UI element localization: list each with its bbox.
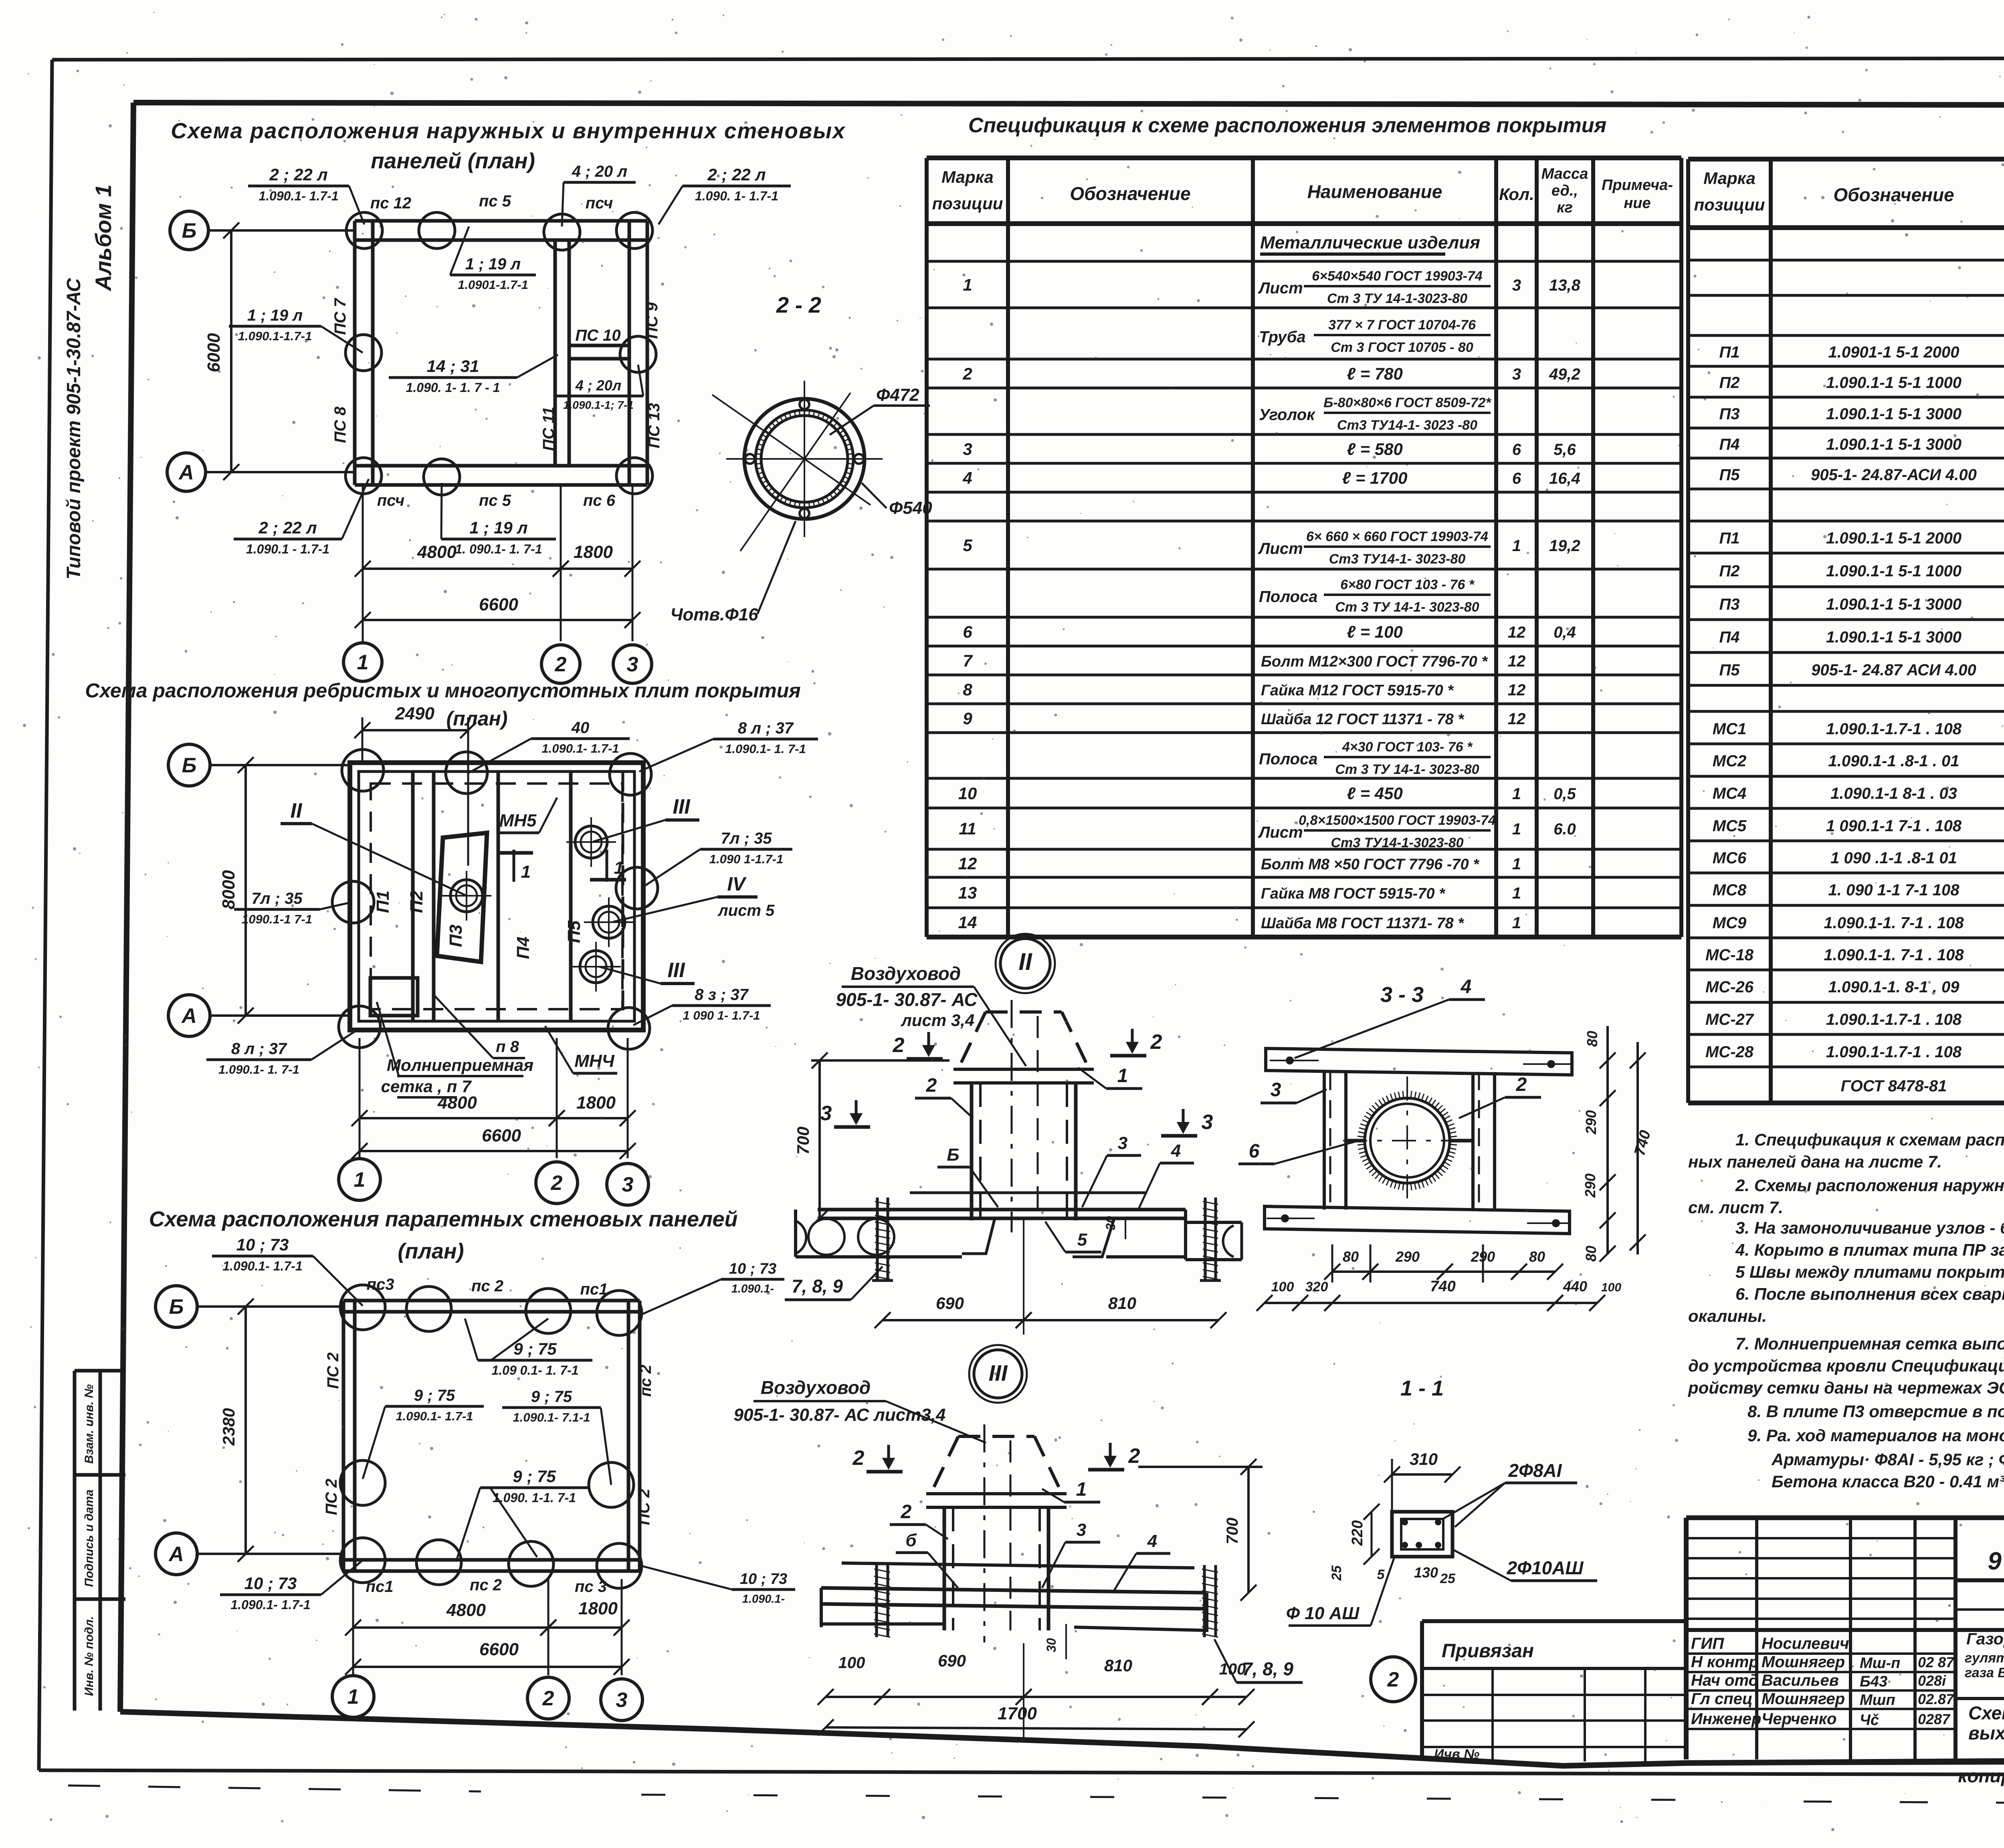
svg-text:905-1- 24.87 АСИ 4.00: 905-1- 24.87 АСИ 4.00: [1811, 661, 1976, 679]
svg-text:II: II: [1018, 948, 1032, 975]
svg-text:2: 2: [893, 1034, 905, 1057]
svg-text:690: 690: [938, 1651, 966, 1670]
svg-text:МС2: МС2: [1713, 752, 1746, 770]
svg-text:панелей (план): панелей (план): [371, 148, 535, 173]
svg-text:2: 2: [853, 1446, 865, 1470]
svg-text:1: 1: [1512, 914, 1521, 932]
svg-text:Примеча-: Примеча-: [1602, 177, 1673, 194]
svg-text:6: 6: [1512, 441, 1521, 458]
svg-text:Инв. № подл.: Инв. № подл.: [83, 1616, 96, 1696]
svg-text:1.090.1-1; 7-1: 1.090.1-1; 7-1: [563, 399, 634, 411]
svg-text:Бетона класса В20 - 0.41 м: Бетона класса В20 - 0.41 м³ .: [1772, 1472, 2004, 1491]
svg-text:4×30 ГОСТ 103- 76 *: 4×30 ГОСТ 103- 76 *: [1342, 739, 1473, 755]
svg-text:8. В плите П3 отверстие: 8. В плите П3 отверстие в полке 810 × 35…: [1747, 1402, 2004, 1421]
svg-text:2 ; 22 л: 2 ; 22 л: [269, 165, 327, 184]
svg-text:0287: 0287: [1918, 1711, 1951, 1727]
svg-text:2Ф10АШ: 2Ф10АШ: [1507, 1557, 1584, 1578]
svg-text:Схема расположения парапетных: Схема расположения парапетных стеновых п…: [149, 1207, 738, 1231]
svg-text:ние: ние: [1624, 195, 1650, 212]
svg-text:1 ; 19 л: 1 ; 19 л: [469, 518, 527, 537]
svg-text:40: 40: [571, 719, 590, 737]
svg-text:100: 100: [1601, 1281, 1621, 1294]
svg-text:700: 700: [794, 1127, 812, 1155]
svg-text:1.090.1-1 .8-1 . 01: 1.090.1-1 .8-1 . 01: [1828, 752, 1960, 770]
svg-text:Б: Б: [169, 1295, 184, 1319]
svg-text:Мошнягер: Мошнягер: [1762, 1690, 1845, 1708]
svg-text:ПС 2: ПС 2: [635, 1488, 653, 1525]
svg-text:Газорегуляторный пункт с ре-: Газорегуляторный пункт с ре-: [1966, 1630, 2004, 1648]
svg-text:1.090.1-1. 8-1 . 09: 1.090.1-1. 8-1 . 09: [1828, 978, 1960, 996]
svg-text:ПС 10: ПС 10: [575, 327, 620, 344]
svg-text:ℓ = 100: ℓ = 100: [1347, 622, 1403, 641]
svg-text:Мш-п: Мш-п: [1860, 1655, 1900, 1672]
svg-text:4800: 4800: [446, 1600, 486, 1620]
svg-text:1: 1: [1512, 885, 1521, 902]
svg-text:вых панелей и плит покрыти: вых панелей и плит покрытия.: [1968, 1723, 2004, 1743]
svg-text:Ф540: Ф540: [889, 498, 932, 518]
svg-text:П3: П3: [1719, 405, 1739, 423]
svg-text:9: 9: [963, 709, 972, 728]
svg-text:1.090.1-1 5-1 3000: 1.090.1-1 5-1 3000: [1826, 628, 1962, 646]
svg-text:МН5: МН5: [499, 811, 537, 830]
svg-text:Шайба 12 ГОСТ 11371 - 78 *: Шайба 12 ГОСТ 11371 - 78 *: [1261, 711, 1465, 728]
svg-text:2: 2: [926, 1075, 937, 1096]
svg-text:2 - 2: 2 - 2: [776, 292, 821, 317]
svg-text:6: 6: [963, 622, 972, 641]
svg-text:лист 3,4: лист 3,4: [901, 1011, 975, 1030]
svg-text:905-1- 30.87- АС лист3,4: 905-1- 30.87- АС лист3,4: [734, 1405, 946, 1425]
svg-text:Б: Б: [947, 1145, 959, 1165]
svg-text:см. лист 7.: см. лист 7.: [1688, 1198, 1783, 1217]
svg-text:6×80 ГОСТ 103 - 76 *: 6×80 ГОСТ 103 - 76 *: [1340, 577, 1475, 592]
svg-text:2 ; 22 л: 2 ; 22 л: [258, 518, 317, 537]
svg-text:5,6: 5,6: [1554, 441, 1576, 458]
svg-text:0,4: 0,4: [1554, 624, 1576, 641]
svg-text:4: 4: [1147, 1531, 1157, 1551]
svg-text:Ф472: Ф472: [876, 385, 919, 405]
svg-text:1.090.1-1 5-1 3000: 1.090.1-1 5-1 3000: [1826, 405, 1962, 423]
svg-text:2: 2: [1128, 1444, 1140, 1468]
svg-text:1: 1: [614, 858, 624, 878]
svg-text:1.090.1- 1.7-1: 1.090.1- 1.7-1: [222, 1259, 302, 1273]
svg-text:6600: 6600: [479, 1640, 519, 1659]
svg-text:1.090.1-1.7-1 . 108: 1.090.1-1.7-1 . 108: [1826, 1043, 1962, 1061]
svg-text:б: б: [905, 1531, 917, 1550]
svg-text:3: 3: [616, 1688, 628, 1712]
svg-text:1. Спецификация к схемам ра: 1. Спецификация к схемам расположения на…: [1735, 1130, 2004, 1149]
svg-text:1.090 1-1.7-1: 1.090 1-1.7-1: [709, 852, 783, 866]
svg-text:1.090.1- 1.7-1: 1.090.1- 1.7-1: [541, 741, 619, 755]
svg-text:П2: П2: [407, 890, 426, 913]
svg-text:МС-26: МС-26: [1705, 978, 1754, 996]
svg-text:лист 5: лист 5: [717, 902, 775, 919]
svg-text:Гайка М12 ГОСТ 5915-70 *: Гайка М12 ГОСТ 5915-70 *: [1261, 682, 1454, 699]
svg-text:3: 3: [1512, 277, 1521, 294]
svg-text:позиции: позиции: [932, 194, 1003, 213]
svg-text:П5: П5: [1719, 466, 1740, 484]
svg-text:130: 130: [1414, 1564, 1438, 1581]
svg-text:П4: П4: [1719, 628, 1739, 646]
svg-text:ℓ = 450: ℓ = 450: [1347, 784, 1403, 803]
svg-text:пс 2: пс 2: [471, 1277, 503, 1295]
svg-text:ройству сетки даны на черт: ройству сетки даны на чертежах ЭС.: [1688, 1378, 2004, 1397]
svg-text:пс 3: пс 3: [575, 1578, 607, 1596]
svg-text:5: 5: [963, 536, 972, 555]
svg-text:Лист: Лист: [1258, 279, 1303, 297]
svg-text:12: 12: [1508, 710, 1526, 728]
svg-text:1 ; 19 л: 1 ; 19 л: [465, 255, 521, 273]
svg-text:2: 2: [1516, 1074, 1527, 1095]
svg-text:0,5: 0,5: [1554, 785, 1576, 803]
svg-text:1800: 1800: [576, 1093, 616, 1113]
svg-text:4. Корыто в плитах типа ПР: 4. Корыто в плитах типа ПР заполняется к…: [1735, 1240, 2004, 1259]
svg-text:Масса: Масса: [1541, 166, 1588, 182]
svg-text:1.090. 1-1. 7-1: 1.090. 1-1. 7-1: [493, 1491, 576, 1505]
svg-text:2380: 2380: [219, 1408, 238, 1446]
svg-text:МС1: МС1: [1713, 720, 1746, 738]
svg-text:1.090.1-1 8-1 . 03: 1.090.1-1 8-1 . 03: [1830, 785, 1957, 802]
svg-text:8: 8: [963, 680, 972, 699]
svg-text:80: 80: [1583, 1246, 1599, 1262]
svg-text:Уголок: Уголок: [1259, 406, 1315, 424]
svg-text:IV: IV: [727, 874, 747, 895]
svg-text:100: 100: [1219, 1660, 1246, 1678]
svg-text:ПС 9: ПС 9: [643, 302, 661, 339]
svg-text:Гл спец: Гл спец: [1691, 1690, 1753, 1708]
svg-text:12: 12: [1508, 681, 1526, 699]
svg-text:1.090.1- 1.7-1: 1.090.1- 1.7-1: [396, 1409, 473, 1423]
svg-text:1.090.1-1 5-1 2000: 1.090.1-1 5-1 2000: [1826, 529, 1962, 547]
svg-text:п 8: п 8: [496, 1038, 519, 1056]
svg-text:(план): (план): [398, 1239, 464, 1263]
svg-text:1.090.1-1 5-1 1000: 1.090.1-1 5-1 1000: [1826, 562, 1962, 580]
svg-text:МС-18: МС-18: [1705, 946, 1754, 964]
svg-text:Схемы расположения стено-: Схемы расположения стено-: [1968, 1703, 2004, 1723]
svg-text:Инженер: Инженер: [1691, 1710, 1761, 1728]
svg-text:П4: П4: [1719, 436, 1739, 453]
svg-text:810: 810: [1104, 1656, 1132, 1675]
svg-text:МНЧ: МНЧ: [574, 1051, 614, 1071]
svg-text:ПС 2: ПС 2: [323, 1478, 340, 1515]
svg-text:1.090.1- 7.1-1: 1.090.1- 7.1-1: [513, 1410, 590, 1424]
svg-text:II: II: [291, 799, 303, 822]
svg-text:810: 810: [1108, 1294, 1136, 1313]
svg-text:5: 5: [1077, 1230, 1087, 1250]
svg-text:4 ; 20л: 4 ; 20л: [575, 377, 621, 394]
svg-text:6. После выполнения всех св: 6. После выполнения всех сварных соедине…: [1735, 1285, 2004, 1303]
svg-text:905-1- 24.87-АСИ 4.00: 905-1- 24.87-АСИ 4.00: [1811, 466, 1977, 484]
svg-text:80: 80: [1529, 1248, 1545, 1265]
svg-text:6.0: 6.0: [1554, 820, 1576, 838]
svg-text:Чотв.Ф16: Чотв.Ф16: [670, 605, 758, 624]
svg-text:290: 290: [1582, 1173, 1598, 1198]
svg-text:700: 700: [1224, 1518, 1241, 1545]
svg-text:7л ; 35: 7л ; 35: [251, 890, 303, 907]
svg-text:1.090.1-1 5-1 1000: 1.090.1-1 5-1 1000: [1826, 374, 1962, 392]
svg-text:МС9: МС9: [1713, 914, 1747, 932]
svg-text:П5: П5: [1719, 661, 1740, 679]
svg-text:2 ; 22 л: 2 ; 22 л: [707, 165, 766, 184]
svg-text:2: 2: [962, 364, 972, 383]
svg-text:П1: П1: [373, 891, 393, 913]
svg-text:80: 80: [1584, 1031, 1600, 1047]
svg-text:905-1- 30.87- АС: 905-1- 30.87- АС: [836, 989, 978, 1010]
svg-text:Шайба М8 ГОСТ 11371- 78 *: Шайба М8 ГОСТ 11371- 78 *: [1261, 915, 1465, 932]
svg-text:псч: псч: [586, 194, 613, 212]
svg-text:440: 440: [1563, 1278, 1587, 1295]
svg-text:310: 310: [1410, 1450, 1438, 1468]
svg-text:ед.,: ед.,: [1551, 182, 1578, 199]
svg-text:16,4: 16,4: [1549, 470, 1580, 487]
svg-text:Обозначение: Обозначение: [1070, 183, 1190, 204]
svg-text:копировал :: копировал :: [1958, 1765, 2004, 1786]
svg-text:МС5: МС5: [1713, 817, 1747, 835]
svg-text:1: 1: [1512, 820, 1521, 838]
svg-text:гуляторами 0,6х+-е . с учетом: гуляторами 0,6х+-е . с учетом расхода: [1965, 1650, 2004, 1666]
svg-text:Альбом 1: Альбом 1: [91, 184, 116, 292]
svg-text:7: 7: [963, 651, 973, 670]
svg-text:100: 100: [1271, 1279, 1294, 1295]
svg-text:4800: 4800: [437, 1093, 477, 1113]
svg-text:МС4: МС4: [1713, 785, 1746, 802]
svg-text:МС8: МС8: [1713, 881, 1747, 899]
svg-text:1: 1: [963, 275, 972, 294]
svg-text:Н контр: Н контр: [1691, 1653, 1759, 1671]
svg-text:3: 3: [627, 653, 638, 676]
svg-text:5: 5: [1377, 1567, 1385, 1582]
svg-text:Молниеприемная: Молниеприемная: [387, 1056, 533, 1074]
svg-text:ных панелей дана на лист: ных панелей дана на листе 7.: [1688, 1152, 1942, 1171]
svg-text:14: 14: [958, 913, 977, 932]
svg-text:3. На замоноличивание узлов: 3. На замоноличивание узлов - бетон клас…: [1735, 1218, 2004, 1237]
svg-text:пс 5: пс 5: [479, 492, 511, 509]
svg-text:740: 740: [1430, 1278, 1455, 1295]
svg-text:4: 4: [962, 469, 972, 487]
svg-text:Воздуховод: Воздуховод: [851, 963, 961, 984]
svg-text:Ст 3 ТУ 14-1- 3023-80: Ст 3 ТУ 14-1- 3023-80: [1335, 600, 1479, 615]
svg-text:Спецификация к схеме распол: Спецификация к схеме расположения элемен…: [968, 114, 1606, 137]
svg-text:пс 2: пс 2: [637, 1365, 655, 1397]
svg-text:до устройства кровли Специф: до устройства кровли Спецификация металл…: [1688, 1356, 2004, 1375]
svg-text:П1: П1: [1719, 529, 1739, 547]
svg-text:13: 13: [958, 883, 977, 902]
svg-text:Ст3 ТУ14-1- 3023 -80: Ст3 ТУ14-1- 3023 -80: [1337, 418, 1477, 433]
svg-text:Черченко: Черченко: [1762, 1710, 1836, 1728]
svg-text:Марка: Марка: [941, 168, 994, 186]
svg-text:3: 3: [1118, 1133, 1127, 1153]
svg-text:Ф 10 АШ: Ф 10 АШ: [1286, 1604, 1360, 1623]
svg-text:2: 2: [1150, 1030, 1162, 1054]
svg-text:1.090. 1- 1.7-1: 1.090. 1- 1.7-1: [695, 189, 778, 203]
svg-text:8 з ; 37: 8 з ; 37: [695, 986, 749, 1004]
svg-text:Б43: Б43: [1860, 1673, 1887, 1690]
svg-text:3: 3: [1512, 366, 1521, 383]
svg-text:1. 090 1-1 7-1 108: 1. 090 1-1 7-1 108: [1828, 881, 1960, 899]
svg-text:А: А: [181, 1004, 197, 1028]
svg-text:8000: 8000: [219, 870, 238, 909]
svg-text:290: 290: [1395, 1248, 1420, 1265]
svg-text:8 л ; 37: 8 л ; 37: [231, 1040, 287, 1058]
svg-text:11: 11: [959, 819, 976, 838]
svg-text:Чč: Чč: [1860, 1712, 1879, 1729]
svg-text:ПС 11: ПС 11: [540, 407, 558, 451]
svg-text:ПС 13: ПС 13: [645, 403, 663, 448]
svg-text:028i: 028i: [1918, 1672, 1946, 1689]
svg-text:Металлические изделия: Металлические изделия: [1260, 233, 1480, 252]
svg-text:9. Ра. ход материалов на мо: 9. Ра. ход материалов на монолитный учас…: [1747, 1426, 2004, 1445]
svg-text:псч: псч: [377, 492, 404, 509]
svg-text:А: А: [178, 461, 194, 484]
svg-text:1.090.1-1.7-1 . 108: 1.090.1-1.7-1 . 108: [1826, 720, 1962, 738]
svg-text:ГОСТ 8478-81: ГОСТ 8478-81: [1841, 1077, 1947, 1095]
svg-text:ГИП: ГИП: [1691, 1635, 1724, 1652]
svg-text:Схема расположения ребристых и: Схема расположения ребристых и многопуст…: [85, 679, 800, 702]
svg-text:1.090.1-1 5-1 3000: 1.090.1-1 5-1 3000: [1826, 436, 1962, 453]
svg-text:1.090.1 - 1.7-1: 1.090.1 - 1.7-1: [246, 542, 329, 556]
svg-text:02 87: 02 87: [1918, 1654, 1955, 1670]
svg-text:Носилевич: Носилевич: [1762, 1635, 1849, 1652]
svg-text:Б: Б: [182, 754, 197, 777]
svg-text:пс1: пс1: [580, 1280, 608, 1298]
svg-text:П4: П4: [513, 937, 533, 959]
svg-text:290: 290: [1471, 1248, 1495, 1265]
svg-text:5 Швы между плитами покрыти: 5 Швы между плитами покрытия тщательно з…: [1735, 1262, 2004, 1281]
svg-text:2. Схемы расположения наружн: 2. Схемы расположения наружных и внутрен…: [1735, 1176, 2004, 1195]
svg-text:Ичв №: Ичв №: [1434, 1747, 1479, 1762]
svg-text:1.090.1-1 5-1 3000: 1.090.1-1 5-1 3000: [1826, 596, 1962, 613]
svg-text:220: 220: [1349, 1520, 1366, 1546]
svg-text:позиции: позиции: [1694, 195, 1765, 214]
svg-text:1: 1: [1117, 1065, 1128, 1087]
svg-text:7, 8, 9: 7, 8, 9: [1242, 1658, 1293, 1679]
svg-text:1.090.1-1. 7-1 . 108: 1.090.1-1. 7-1 . 108: [1824, 914, 1964, 932]
svg-text:7, 8, 9: 7, 8, 9: [792, 1276, 843, 1297]
svg-text:1.090.1- 1.7-1: 1.090.1- 1.7-1: [230, 1598, 310, 1612]
svg-text:газа Встроенной: газа Встроенной: [1965, 1665, 2004, 1680]
svg-text:1: 1: [1512, 537, 1521, 555]
svg-text:1. 090.1- 1. 7-1: 1. 090.1- 1. 7-1: [455, 542, 542, 556]
svg-text:0,8×1500×1500 ГОСТ 19903-74: 0,8×1500×1500 ГОСТ 19903-74: [1299, 813, 1496, 828]
svg-text:8 л ; 37: 8 л ; 37: [738, 719, 794, 737]
svg-text:Кол.: Кол.: [1499, 185, 1534, 204]
svg-text:10: 10: [958, 784, 977, 803]
svg-text:9 ; 75: 9 ; 75: [513, 1467, 556, 1486]
svg-text:П1: П1: [1719, 343, 1739, 361]
svg-text:30: 30: [1103, 1216, 1118, 1230]
svg-text:П2: П2: [1719, 562, 1739, 580]
svg-text:1 090 1- 1.7-1: 1 090 1- 1.7-1: [683, 1008, 760, 1022]
svg-text:320: 320: [1305, 1279, 1328, 1295]
svg-text:Ст 3 ГОСТ 10705 - 80: Ст 3 ГОСТ 10705 - 80: [1331, 340, 1473, 355]
svg-text:2490: 2490: [395, 704, 434, 723]
svg-text:(план): (план): [446, 707, 508, 730]
svg-text:пс3: пс3: [367, 1276, 394, 1293]
svg-text:Ст 3 ТУ 14-1-3023-80: Ст 3 ТУ 14-1-3023-80: [1327, 291, 1467, 306]
svg-text:ℓ = 1700: ℓ = 1700: [1342, 469, 1408, 487]
svg-text:1.090.1- 1. 7-1: 1.090.1- 1. 7-1: [218, 1062, 299, 1076]
svg-text:Труба: Труба: [1259, 328, 1306, 346]
svg-text:Арматуры· Ф8АІ - 5,95 кг ; Ф: Арматуры· Ф8АІ - 5,95 кг ; Ф10АШ - 14.01…: [1771, 1450, 2004, 1469]
svg-text:4 ; 20 л: 4 ; 20 л: [572, 163, 627, 180]
svg-text:П3: П3: [1719, 596, 1739, 613]
svg-text:1.090.1-1.7-1 . 108: 1.090.1-1.7-1 . 108: [1826, 1011, 1962, 1028]
svg-text:290: 290: [1583, 1110, 1599, 1135]
svg-text:кг: кг: [1557, 199, 1573, 216]
svg-text:30: 30: [1044, 1638, 1059, 1652]
svg-text:Наименование: Наименование: [1307, 181, 1442, 202]
svg-text:1.090.1-: 1.090.1-: [742, 1593, 785, 1606]
svg-text:6000: 6000: [204, 333, 224, 372]
svg-text:Васильев: Васильев: [1762, 1672, 1839, 1689]
svg-text:12: 12: [958, 854, 977, 873]
svg-text:1 090 .1-1 .8-1 01: 1 090 .1-1 .8-1 01: [1830, 849, 1957, 867]
svg-text:9 ; 75: 9 ; 75: [531, 1388, 572, 1406]
svg-text:окалины.: окалины.: [1688, 1307, 1767, 1325]
svg-text:10 ; 73: 10 ; 73: [236, 1235, 289, 1254]
svg-text:905-1- 30. 87- АС: 905-1- 30. 87- АС: [1988, 1547, 2004, 1575]
svg-text:ℓ = 780: ℓ = 780: [1347, 364, 1403, 383]
svg-text:1.090. 1- 1. 7 - 1: 1.090. 1- 1. 7 - 1: [406, 380, 500, 395]
svg-text:12: 12: [1508, 624, 1526, 641]
svg-text:П5: П5: [564, 920, 584, 943]
svg-text:4800: 4800: [417, 542, 457, 562]
svg-text:2: 2: [542, 1687, 554, 1710]
svg-text:III: III: [989, 1360, 1008, 1385]
svg-text:7л ; 35: 7л ; 35: [721, 830, 772, 847]
svg-text:2: 2: [551, 1171, 563, 1195]
svg-text:1: 1: [1076, 1479, 1087, 1500]
svg-text:Подпись и дата: Подпись и дата: [83, 1489, 96, 1587]
svg-text:14 ; 31: 14 ; 31: [427, 357, 479, 376]
svg-text:Б: Б: [182, 219, 197, 242]
svg-text:1.090.1-1. 7-1 . 108: 1.090.1-1. 7-1 . 108: [1824, 946, 1964, 964]
svg-text:2: 2: [901, 1501, 912, 1523]
svg-text:ПС 7: ПС 7: [331, 298, 349, 335]
svg-text:Взам. инв. №: Взам. инв. №: [83, 1384, 96, 1464]
svg-text:1.0901-1.7-1: 1.0901-1.7-1: [458, 278, 528, 292]
svg-text:Мшп: Мшп: [1860, 1692, 1895, 1709]
svg-text:III: III: [673, 795, 691, 818]
svg-text:пс 12: пс 12: [370, 194, 411, 212]
svg-text:Мошнягер: Мошнягер: [1762, 1653, 1845, 1671]
svg-text:1: 1: [521, 862, 531, 882]
svg-text:02.87: 02.87: [1918, 1691, 1955, 1707]
svg-text:1 - 1: 1 - 1: [1400, 1376, 1444, 1400]
svg-text:6× 660 × 660 ГОСТ 19903-74: 6× 660 × 660 ГОСТ 19903-74: [1306, 529, 1488, 544]
svg-text:1: 1: [1512, 785, 1521, 803]
svg-text:6: 6: [1512, 470, 1521, 487]
svg-text:Б-80×80×6 ГОСТ 8509-72*: Б-80×80×6 ГОСТ 8509-72*: [1323, 395, 1491, 410]
svg-text:Воздуховод: Воздуховод: [761, 1377, 871, 1398]
svg-text:1800: 1800: [578, 1599, 618, 1618]
svg-text:377 × 7 ГОСТ 10704-76: 377 × 7 ГОСТ 10704-76: [1328, 317, 1476, 333]
svg-text:1: 1: [347, 1685, 359, 1709]
svg-text:3: 3: [622, 1173, 634, 1196]
svg-text:1: 1: [354, 1168, 366, 1192]
svg-text:2: 2: [1387, 1668, 1399, 1691]
svg-text:13,8: 13,8: [1549, 277, 1581, 294]
svg-text:7. Молниеприемная сетка выпол: 7. Молниеприемная сетка выполняется ..еп…: [1735, 1334, 2004, 1353]
svg-text:3: 3: [1077, 1520, 1086, 1540]
svg-text:ℓ = 580: ℓ = 580: [1347, 440, 1403, 458]
svg-text:Полоса: Полоса: [1259, 750, 1317, 768]
svg-text:П2: П2: [1719, 374, 1739, 392]
svg-text:Болт М8 ×50 ГОСТ 7796 -70 *: Болт М8 ×50 ГОСТ 7796 -70 *: [1261, 856, 1480, 873]
svg-text:12: 12: [1508, 652, 1526, 670]
svg-text:100: 100: [838, 1654, 865, 1672]
svg-text:25: 25: [1329, 1565, 1344, 1581]
svg-text:ПС 2: ПС 2: [324, 1352, 342, 1389]
